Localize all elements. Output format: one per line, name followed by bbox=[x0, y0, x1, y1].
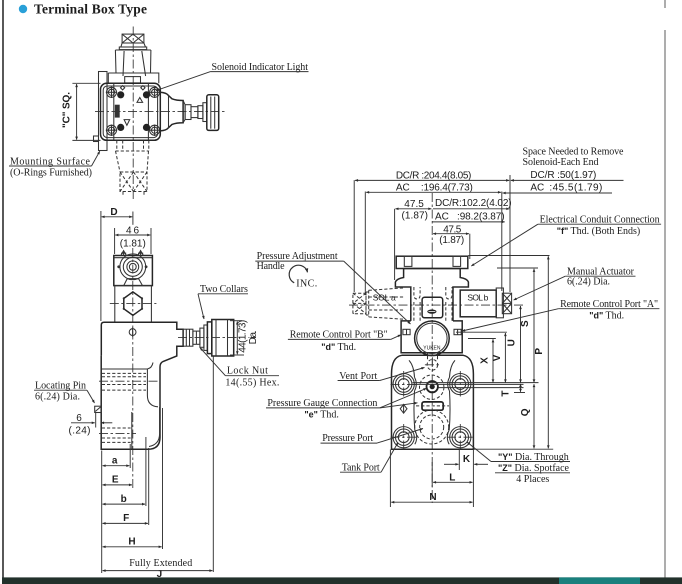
svg-text:Space Needed to Remove: Space Needed to Remove bbox=[523, 147, 625, 158]
bottom dimensions of front view bbox=[390, 442, 570, 507]
upper body block bbox=[101, 322, 183, 367]
svg-text:Electrical Conduit Connection: Electrical Conduit Connection bbox=[540, 214, 660, 225]
port TL bbox=[393, 374, 414, 395]
svg-text:6(.24) Dia.: 6(.24) Dia. bbox=[35, 392, 80, 403]
right-top labels bbox=[462, 147, 661, 332]
svg-text:Dia.: Dia. bbox=[248, 330, 259, 344]
adjust screw hex bbox=[183, 329, 200, 346]
vent circle dashed bbox=[427, 360, 438, 371]
sol b end cap bbox=[496, 288, 503, 318]
port TR bbox=[450, 374, 471, 395]
S dim bbox=[533, 269, 535, 383]
neck collar bbox=[108, 73, 159, 83]
small squares top bbox=[120, 86, 124, 90]
svg-text:Fully Extended: Fully Extended bbox=[129, 558, 192, 569]
svg-text:DC/R :204.4(8.05): DC/R :204.4(8.05) bbox=[396, 170, 472, 181]
YUKEN circle inner bbox=[417, 323, 447, 353]
svg-text:Pressure Adjustment: Pressure Adjustment bbox=[257, 251, 338, 262]
spring centerline upper bbox=[99, 380, 158, 382]
sol b hatch block bbox=[502, 293, 511, 314]
side view dimensions bbox=[34, 284, 279, 580]
bolt square left bbox=[403, 329, 410, 334]
svg-text:b: b bbox=[121, 494, 127, 505]
svg-text:YUKEN: YUKEN bbox=[423, 346, 441, 352]
spring dashes upper bbox=[102, 373, 146, 390]
title bullet bbox=[19, 5, 27, 13]
left labels of front view bbox=[255, 251, 488, 474]
top knob hatched bbox=[119, 34, 146, 50]
svg-text:F: F bbox=[123, 513, 129, 524]
svg-text::196.4(7.73): :196.4(7.73) bbox=[421, 182, 473, 193]
centerline vertical bbox=[132, 248, 134, 490]
S top line bbox=[497, 267, 538, 269]
top plate bbox=[396, 256, 468, 268]
svg-text::45.5(1.79): :45.5(1.79) bbox=[549, 183, 602, 194]
label Y Z bbox=[467, 442, 491, 462]
plate tab bbox=[94, 136, 99, 142]
hex centerline bbox=[110, 302, 157, 304]
front view top dimensions bbox=[354, 170, 511, 295]
ext verticals bbox=[458, 450, 460, 471]
svg-text:14(.55) Hex.: 14(.55) Hex. bbox=[225, 378, 279, 389]
hex section box bbox=[115, 286, 152, 323]
middle block bbox=[404, 287, 461, 321]
svg-text:AC: AC bbox=[530, 183, 544, 194]
mounting plate bbox=[99, 72, 108, 151]
terminal box body bbox=[101, 83, 161, 140]
svg-text:H: H bbox=[128, 537, 135, 548]
svg-text:Remote Control Port "B": Remote Control Port "B" bbox=[290, 330, 388, 341]
svg-text:6(.24) Dia.: 6(.24) Dia. bbox=[567, 277, 610, 288]
svg-text:U: U bbox=[506, 339, 517, 346]
svg-text:V: V bbox=[492, 354, 503, 361]
centerline horizontal bbox=[95, 111, 226, 113]
collars bbox=[200, 328, 204, 347]
dim C SQ bbox=[72, 82, 100, 84]
flange trapezoid bbox=[124, 279, 143, 286]
svg-text:Lock Nut: Lock Nut bbox=[227, 366, 268, 377]
corner screw BR bbox=[149, 125, 160, 136]
shaft bbox=[191, 107, 198, 118]
svg-text:SOL a: SOL a bbox=[373, 293, 396, 303]
corner screw TL bbox=[106, 87, 117, 98]
svg-text:Pressure Port: Pressure Port bbox=[322, 433, 373, 444]
bolt channels dashed bbox=[414, 287, 452, 321]
svg-text:(1.87): (1.87) bbox=[439, 235, 464, 246]
svg-text:(1.87): (1.87) bbox=[402, 210, 429, 221]
centerline vertical bbox=[132, 27, 134, 200]
tag plate bbox=[422, 402, 443, 410]
left page border bbox=[2, 0, 4, 578]
flange top bolts bbox=[121, 251, 127, 256]
svg-text:K: K bbox=[463, 454, 471, 465]
svg-text:Tank Port: Tank Port bbox=[342, 462, 380, 473]
svg-text:S: S bbox=[520, 320, 531, 327]
dashed verticals inner bbox=[122, 140, 124, 150]
T bottom tick bbox=[514, 392, 525, 394]
bottom teal segment bbox=[559, 577, 640, 584]
top view labels bbox=[9, 62, 309, 179]
X top line bbox=[468, 338, 496, 340]
svg-text:N: N bbox=[429, 492, 436, 503]
locating pin tab bbox=[95, 406, 101, 412]
svg-text:(1.81): (1.81) bbox=[120, 239, 146, 250]
port BL bbox=[393, 427, 414, 448]
svg-text:AC: AC bbox=[435, 212, 449, 223]
svg-text:INC.: INC. bbox=[296, 279, 317, 290]
knob side bbox=[207, 322, 211, 354]
gauge circle bbox=[427, 381, 438, 392]
neck inner lines bbox=[123, 51, 146, 76]
Q dim bbox=[533, 384, 535, 448]
svg-text:Solenoid-Each End: Solenoid-Each End bbox=[523, 157, 599, 168]
lower body outline bbox=[101, 356, 160, 450]
centerline vertical bbox=[431, 193, 433, 503]
bottom dark bar bbox=[2, 577, 682, 584]
triangle down bbox=[124, 120, 130, 126]
name plate bbox=[422, 297, 443, 318]
baseline port centers bbox=[413, 382, 539, 384]
svg-text:Handle: Handle bbox=[257, 261, 286, 272]
V dim bbox=[504, 333, 506, 383]
vent boss bbox=[428, 353, 438, 360]
TITLE bbox=[19, 2, 147, 17]
svg-text:"e" Thd.: "e" Thd. bbox=[304, 410, 338, 421]
port center ticks bbox=[391, 371, 474, 451]
svg-text:E: E bbox=[112, 475, 119, 486]
extension verticals bbox=[101, 451, 103, 574]
svg-text:4 Places: 4 Places bbox=[516, 474, 549, 485]
svg-text:"d" Thd.: "d" Thd. bbox=[589, 310, 624, 321]
port boss arcs bbox=[415, 377, 417, 391]
chamber inner wall2 bbox=[149, 407, 160, 447]
sol b block bbox=[460, 290, 496, 317]
svg-text:Q: Q bbox=[520, 408, 531, 416]
INC arc bbox=[289, 265, 307, 283]
YUKEN circle outer bbox=[415, 321, 450, 356]
svg-text:X: X bbox=[480, 357, 491, 364]
svg-text:AC: AC bbox=[396, 182, 410, 193]
collar bbox=[198, 106, 203, 119]
corner screw BL bbox=[106, 125, 117, 136]
svg-text:P: P bbox=[534, 348, 545, 355]
hatched slot bbox=[115, 105, 120, 118]
U dim bbox=[520, 306, 522, 383]
triangle up bbox=[137, 98, 143, 103]
name plate oval bbox=[427, 310, 436, 314]
right page gray rule bbox=[664, 0, 666, 8]
knob bbox=[207, 95, 219, 131]
circle block bbox=[401, 321, 462, 353]
svg-text:"C" SQ.: "C" SQ. bbox=[62, 92, 73, 128]
inner vertical bbox=[131, 412, 133, 449]
bottom hidden stem bbox=[116, 140, 149, 196]
corner screw TR bbox=[149, 87, 160, 98]
flange side dots bbox=[117, 265, 120, 268]
plate tabs bbox=[404, 256, 412, 266]
svg-text:a: a bbox=[112, 456, 118, 467]
horn inner lines bbox=[169, 96, 186, 128]
chamber inner wall bbox=[147, 369, 158, 407]
P top line bbox=[468, 255, 549, 257]
solenoid horn bbox=[160, 92, 183, 131]
knob centerline bbox=[178, 336, 240, 338]
bolt square right bbox=[454, 329, 461, 334]
svg-text:T: T bbox=[500, 390, 511, 396]
body small circle bbox=[129, 329, 136, 336]
pressure dashed circles bbox=[415, 410, 449, 444]
svg-text:"d" Thd.: "d" Thd. bbox=[321, 342, 356, 353]
svg-text:"f" Thd. (Both Ends): "f" Thd. (Both Ends) bbox=[557, 226, 641, 237]
flange circles bbox=[120, 254, 146, 280]
X dim bbox=[492, 339, 494, 382]
port block bbox=[392, 355, 474, 449]
svg-text:(O-Rings Furnished): (O-Rings Furnished) bbox=[10, 168, 92, 179]
gauge line bbox=[438, 387, 523, 389]
svg-text:DC/R:102.2(4.02): DC/R:102.2(4.02) bbox=[435, 198, 512, 209]
svg-text:Pressure Gauge Connection: Pressure Gauge Connection bbox=[267, 398, 377, 409]
P dim bbox=[547, 256, 549, 448]
chamber top line bbox=[101, 363, 153, 370]
svg-text:(.24): (.24) bbox=[69, 426, 91, 437]
port BR bbox=[450, 427, 471, 448]
svg-text:SOL b: SOL b bbox=[467, 293, 488, 303]
ext lines top bbox=[353, 180, 355, 292]
spring dashes lower bbox=[102, 428, 131, 442]
svg-text:Remote Control Port "A": Remote Control Port "A" bbox=[560, 299, 658, 310]
V top line bbox=[456, 331, 507, 333]
side inner curves bbox=[409, 360, 455, 430]
svg-text:Terminal Box Type: Terminal Box Type bbox=[34, 2, 147, 17]
solenoid block bbox=[185, 105, 191, 120]
hex nut bbox=[124, 292, 142, 315]
sol a phantom dashed bbox=[353, 288, 404, 319]
neck tube bbox=[115, 50, 150, 73]
dim 44(1.73) bbox=[230, 320, 242, 322]
body face lines bbox=[113, 83, 115, 140]
T dim bbox=[520, 384, 522, 392]
svg-text:DC/R :50(1.97): DC/R :50(1.97) bbox=[530, 170, 596, 181]
bottom ext line bbox=[473, 448, 553, 450]
gauge dashed circle bbox=[420, 375, 444, 399]
upper body bbox=[395, 269, 468, 288]
svg-text:47.5: 47.5 bbox=[404, 199, 424, 210]
svg-text::98.2(3.87): :98.2(3.87) bbox=[457, 212, 505, 223]
diamond mark bbox=[400, 404, 407, 413]
flange box bbox=[114, 256, 153, 286]
spring centerline lower bbox=[99, 433, 136, 435]
right side dimensions bbox=[413, 256, 554, 450]
neck inner rect bbox=[125, 77, 141, 83]
terminal dots bbox=[117, 91, 150, 131]
solenoid axis centerline bbox=[349, 304, 525, 306]
disc bbox=[203, 103, 207, 122]
